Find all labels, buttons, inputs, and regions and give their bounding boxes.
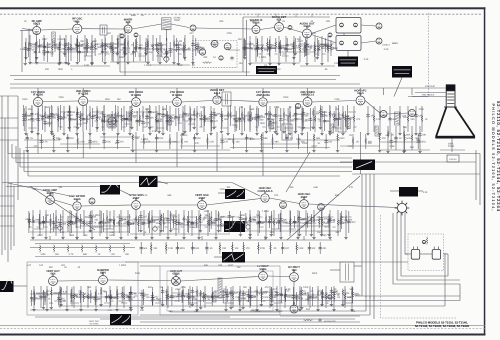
wire link [204, 117, 215, 119]
wire feed [82, 88, 84, 95]
resistor R [87, 42, 89, 50]
svg-text:3.3K: 3.3K [157, 218, 162, 221]
resistor R [193, 109, 195, 117]
capacitor C [68, 110, 71, 114]
resistor R [178, 115, 180, 123]
capacitor C [284, 47, 287, 51]
wire [119, 33, 121, 72]
svg-text:VERT OUT: VERT OUT [89, 320, 100, 323]
svg-text:PHILCO MODELS 52-T2100, 52-T21: PHILCO MODELS 52-T2100, 52-T2104, [491, 104, 496, 211]
wire [35, 256, 121, 258]
wire stage drop [351, 286, 353, 308]
svg-text:220K: 220K [191, 114, 197, 117]
wire stage drop [421, 106, 423, 132]
ground [30, 130, 33, 133]
wire stage drop [183, 210, 185, 236]
black label block [392, 66, 412, 78]
svg-text:.047: .047 [130, 223, 135, 226]
wire [459, 284, 461, 296]
coil L [204, 115, 207, 122]
wire shelf [30, 293, 80, 295]
wire [181, 277, 259, 282]
tube V28 HOR OSC CONT 6AL5 [261, 191, 269, 202]
svg-text:.001: .001 [196, 113, 201, 116]
resistor R [182, 111, 184, 119]
wire link [102, 228, 114, 230]
svg-text:47K: 47K [195, 142, 200, 145]
wire stage drop [415, 106, 417, 132]
wire [43, 100, 79, 103]
wire stage drop [404, 134, 406, 149]
resistor R [270, 287, 272, 295]
border: bottom thin rule [0, 324, 485, 327]
svg-text:2ND ANODE: 2ND ANODE [422, 94, 435, 97]
wire stage drop [158, 105, 160, 130]
wire [459, 296, 461, 301]
wire stage drop [116, 286, 118, 308]
wire stage drop [249, 210, 251, 236]
wire stage drop [230, 105, 232, 126]
tube V18 HOR AFC 6AL5 [356, 93, 365, 105]
wire bus end [23, 150, 25, 172]
resistor R [69, 115, 71, 123]
resistor R [196, 111, 198, 119]
svg-text:56K: 56K [350, 288, 355, 291]
wire stage drop [211, 287, 213, 306]
tube pilot lamp [328, 295, 332, 299]
wire stage drop [341, 211, 343, 229]
wire stage drop [301, 106, 303, 132]
wire stage drop [31, 106, 33, 132]
capacitor C [155, 119, 158, 123]
wire stage drop [373, 106, 375, 132]
svg-text:.001: .001 [55, 222, 60, 225]
wire [171, 24, 189, 28]
wire stage drop [136, 111, 138, 131]
svg-text:470K: 470K [260, 247, 266, 250]
resistor R [44, 111, 46, 119]
wire [264, 236, 266, 240]
resistor R [67, 245, 69, 253]
wire antenna input [22, 29, 33, 30]
wire link [206, 302, 212, 304]
svg-text:47K: 47K [249, 48, 254, 51]
svg-text:120K: 120K [199, 47, 205, 50]
ground [240, 132, 243, 135]
svg-text:68K: 68K [275, 141, 280, 144]
wire left-edge stub [0, 139, 18, 141]
resistor R [310, 216, 312, 224]
wire stage drop [124, 42, 126, 62]
resistor R [89, 111, 91, 119]
resistor R [145, 48, 147, 56]
svg-text:470K: 470K [105, 141, 111, 144]
wire stage drop [59, 35, 61, 61]
wire [354, 265, 362, 267]
waveform display [110, 314, 131, 325]
svg-text:1500: 1500 [54, 47, 60, 50]
wire [418, 190, 423, 192]
wire stage drop [417, 134, 419, 149]
wire link [174, 49, 184, 51]
wire stage drop [29, 35, 31, 61]
capacitor C [68, 117, 71, 121]
svg-text:68K: 68K [347, 296, 352, 299]
svg-text:1500: 1500 [277, 115, 283, 118]
capacitor C [212, 112, 215, 116]
ground [64, 61, 67, 64]
wire stage drop [110, 42, 112, 53]
wire stage drop [86, 38, 88, 56]
ground [316, 308, 319, 311]
capacitor C [39, 295, 42, 299]
wire stage drop [131, 105, 133, 126]
capacitor C [70, 220, 73, 224]
resistor R [63, 111, 65, 119]
svg-text:.005: .005 [178, 44, 183, 47]
svg-text:.005: .005 [90, 45, 95, 48]
wire shelf [380, 141, 420, 143]
resistor R [160, 214, 162, 222]
svg-text:56K: 56K [83, 234, 88, 237]
svg-text:39K: 39K [226, 186, 231, 189]
ground [75, 132, 78, 135]
ground [220, 130, 223, 133]
transformer T power [340, 262, 354, 282]
capacitor C [148, 110, 151, 114]
svg-text:1500: 1500 [258, 119, 264, 122]
capacitor C [281, 246, 284, 250]
resistor R [166, 113, 168, 121]
capacitor C [58, 299, 61, 303]
speaker box 1 [336, 18, 361, 34]
resistor R [293, 41, 295, 49]
capacitor C [279, 46, 282, 50]
ground [279, 236, 282, 239]
svg-text:56K: 56K [78, 220, 83, 223]
svg-text:22K: 22K [139, 44, 144, 47]
capacitor C [268, 46, 271, 50]
wire link [48, 43, 58, 45]
svg-text:.005: .005 [219, 20, 224, 23]
wire stage drop [42, 105, 44, 130]
ground [241, 306, 244, 309]
capacitor C [52, 221, 55, 225]
wire stage drop [191, 210, 193, 236]
tube V24 AGC KEYER 6AU6 [73, 199, 81, 210]
wire stage drop [66, 286, 68, 308]
wire [365, 101, 380, 114]
wire antenna drop [28, 29, 30, 46]
svg-text:22K: 22K [368, 142, 373, 145]
svg-text:220K: 220K [274, 295, 280, 298]
resistor R [379, 134, 381, 142]
capacitor C [38, 221, 41, 225]
svg-text:2.2M: 2.2M [334, 98, 339, 101]
capacitor C [224, 292, 227, 296]
ground [126, 61, 129, 64]
wire stage drop [147, 39, 149, 53]
wire stage drop [284, 286, 286, 308]
wire stage drop [82, 106, 84, 132]
wire shelf [260, 143, 300, 145]
wire [218, 192, 225, 194]
wire stage drop [150, 242, 152, 254]
resistor R [337, 219, 339, 227]
wire stage drop [136, 38, 138, 52]
svg-text:68K: 68K [316, 137, 321, 140]
wire stage drop [325, 134, 327, 149]
ground [332, 308, 335, 311]
svg-text:.047: .047 [57, 44, 62, 47]
svg-text:10K: 10K [311, 247, 316, 250]
resistor R [181, 292, 183, 300]
capacitor C [274, 114, 277, 118]
svg-text:22K: 22K [234, 221, 239, 224]
wire [82, 28, 124, 30]
ground [103, 61, 106, 64]
tube V7b [288, 26, 292, 30]
wire stage drop [24, 42, 26, 62]
capacitor C [122, 46, 125, 50]
resistor R [118, 219, 120, 227]
wire stage drop [171, 287, 173, 306]
wire link [223, 302, 234, 304]
wire stage drop [261, 36, 263, 62]
wire stage drop [314, 36, 316, 62]
ground [248, 233, 251, 236]
wire stage drop [297, 210, 299, 236]
resistor R [165, 244, 167, 252]
svg-text:68K: 68K [169, 310, 174, 313]
wire shelf [80, 225, 130, 227]
resistor R [182, 45, 184, 53]
capacitor C [275, 292, 278, 296]
svg-text:68K: 68K [93, 40, 98, 43]
wire stage drop [189, 108, 191, 131]
capacitor C [103, 43, 106, 47]
ground [52, 149, 55, 152]
coil L [86, 116, 89, 123]
capacitor C [210, 119, 213, 123]
wire stage drop [189, 106, 191, 132]
svg-text:68K: 68K [250, 108, 255, 111]
svg-text:33K: 33K [92, 216, 97, 219]
svg-text:.0047: .0047 [37, 234, 43, 237]
resistor R [256, 41, 258, 49]
wire stage drop [132, 134, 134, 149]
svg-text:6.8K: 6.8K [109, 231, 114, 234]
svg-text:15K: 15K [181, 223, 186, 226]
ground [305, 62, 308, 65]
wire stage drop [79, 111, 81, 127]
ground [88, 132, 91, 135]
wire shelf [80, 296, 130, 298]
wire stage drop [54, 38, 56, 52]
capacitor C [155, 43, 158, 47]
svg-text:3.3K: 3.3K [209, 141, 214, 144]
wire bus [8, 153, 480, 155]
svg-text:LS2014: LS2014 [382, 44, 390, 47]
wire stage drop [162, 287, 164, 303]
svg-text:1K: 1K [247, 119, 250, 122]
wire feed [307, 88, 309, 95]
wire feed [135, 88, 137, 95]
wire shelf [300, 65, 335, 67]
wire shelf [220, 291, 270, 293]
wire stage drop [100, 287, 102, 303]
ground [181, 132, 184, 135]
wire stage drop [309, 108, 311, 131]
wire stage drop [39, 39, 41, 53]
svg-text:56K: 56K [224, 118, 229, 121]
svg-text:2.2M: 2.2M [275, 68, 280, 71]
coil L [103, 116, 106, 123]
wire link [120, 49, 130, 51]
wire stage drop [203, 106, 205, 132]
svg-text:1 MEG: 1 MEG [35, 298, 42, 301]
wire stage drop [99, 210, 101, 236]
svg-text:4.7K: 4.7K [158, 44, 163, 47]
ground [277, 62, 280, 65]
wire stage drop [245, 40, 247, 56]
capacitor C [183, 112, 186, 116]
ground [217, 229, 220, 232]
wire [267, 101, 303, 104]
wire stage drop [189, 286, 191, 308]
wire diagonal [8, 183, 70, 196]
svg-text:.001: .001 [306, 49, 311, 52]
wire stage drop [195, 38, 197, 56]
svg-text:52-T2144, 52-T2240, 52-T2244,: 52-T2144, 52-T2240, 52-T2244, 52-T2245 [415, 324, 470, 328]
wire stage drop [276, 106, 278, 132]
svg-text:2.2M: 2.2M [121, 223, 126, 226]
resistor R [142, 111, 144, 119]
ground [35, 56, 38, 59]
wire stage drop [167, 210, 169, 236]
ground [139, 229, 142, 232]
wire stage drop [182, 42, 184, 57]
wire stage drop [419, 126, 421, 150]
wire stage drop [285, 36, 287, 62]
capacitor C [81, 117, 84, 121]
resistor R [189, 115, 191, 123]
ground [172, 61, 175, 64]
wire stage drop [324, 38, 326, 52]
wire stage drop [135, 210, 137, 236]
wire stage drop [287, 108, 289, 131]
wire stage drop [290, 211, 292, 233]
wire link [70, 302, 79, 304]
wire stage drop [182, 286, 184, 308]
wire stage drop [143, 210, 145, 236]
resistor R [200, 290, 202, 298]
ground [248, 62, 251, 65]
svg-text:22K: 22K [297, 221, 302, 224]
capacitor C [101, 50, 104, 54]
wire rail [352, 173, 480, 175]
resistor R [231, 244, 233, 252]
capacitor C [23, 118, 26, 122]
wire stage drop [325, 286, 327, 308]
wire feed [176, 88, 178, 95]
ground [296, 236, 299, 239]
wire stage drop [77, 39, 79, 53]
resistor R [344, 115, 346, 123]
wire stage drop [64, 38, 66, 52]
wire stage drop [269, 106, 271, 132]
ground [366, 132, 369, 135]
ground [294, 130, 297, 133]
svg-text:3.3K: 3.3K [104, 45, 109, 48]
wire [108, 279, 172, 282]
svg-text:1K: 1K [326, 302, 329, 305]
wire bus [12, 157, 352, 159]
wire stage drop [69, 106, 71, 132]
wire link [300, 127, 310, 129]
wire link [300, 43, 309, 45]
wire link [138, 292, 145, 294]
ground [177, 62, 180, 65]
svg-text:6BC5: 6BC5 [33, 23, 40, 26]
waveform display [353, 160, 375, 171]
wire [415, 92, 446, 94]
wire feed [37, 88, 39, 95]
ground [294, 52, 297, 55]
resistor R [314, 115, 316, 123]
wire stage drop [239, 108, 241, 130]
capacitor C [188, 295, 191, 299]
resistor R [160, 45, 162, 53]
svg-text:6AU6: 6AU6 [74, 198, 81, 201]
wire stage drop [146, 108, 148, 127]
svg-text:1K: 1K [253, 45, 256, 48]
ground [199, 229, 202, 232]
wire feed [360, 88, 362, 95]
dashed enclosure boundary [428, 13, 430, 96]
wire stage drop [31, 105, 33, 130]
tube V27 VERT OSC 6SN7 [198, 198, 207, 210]
tube V31 [318, 204, 325, 211]
capacitor C [75, 43, 78, 47]
ground [275, 132, 278, 135]
resistor R [117, 111, 119, 119]
resistor R [170, 212, 172, 220]
wire rail [125, 261, 408, 263]
wire shelf [230, 147, 330, 149]
wire stage drop [95, 286, 97, 308]
svg-text:1K: 1K [247, 47, 250, 50]
wire stage drop [127, 35, 129, 61]
wire stage drop [256, 106, 258, 132]
wire stage drop [44, 106, 46, 132]
svg-text:3.3K: 3.3K [423, 191, 428, 194]
wire stage drop [58, 42, 60, 62]
resistor R [301, 289, 303, 297]
wire loop [397, 213, 460, 280]
svg-text:1 MEG: 1 MEG [119, 264, 126, 267]
waveform display [225, 189, 245, 199]
wire diagonal [30, 186, 95, 230]
wire link [104, 302, 110, 304]
wire stage drop [260, 287, 262, 303]
wire stage drop [109, 211, 111, 229]
svg-text:120K: 120K [222, 223, 228, 226]
wire left-edge stub [0, 95, 18, 97]
wire stage drop [243, 39, 245, 57]
capacitor C [41, 116, 44, 120]
wire left stub [0, 195, 14, 197]
